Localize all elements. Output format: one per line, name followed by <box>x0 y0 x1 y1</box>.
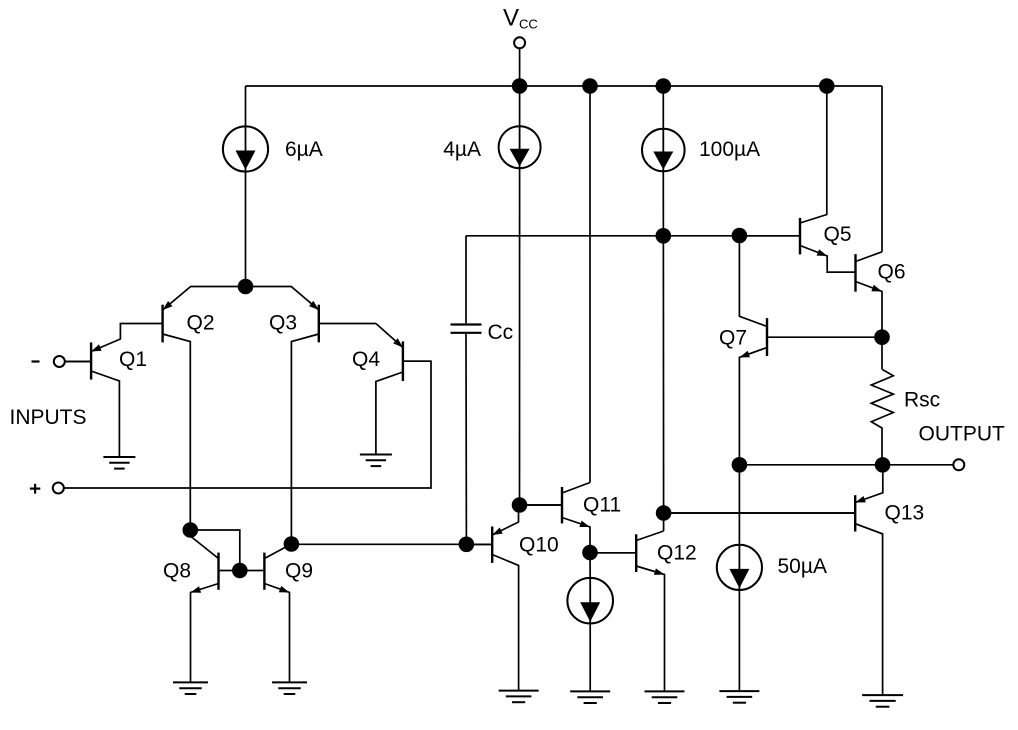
junction rail / Q11 column <box>582 78 598 94</box>
junction Q2-Q8 collector node <box>183 522 199 538</box>
ground (under Q10) <box>499 691 539 703</box>
wire output line <box>739 464 953 466</box>
terminal inverting input <box>54 356 65 367</box>
svg-text:INPUTS: INPUTS <box>10 406 87 429</box>
junction rail / Q5 collector <box>819 78 835 94</box>
wire Cc bottom branch <box>465 334 467 544</box>
wire bias source to ground <box>589 623 591 691</box>
junction Q11 emitter / Q12 base node <box>582 545 598 561</box>
junction Q3-Q9 collector node <box>284 536 300 552</box>
svg-text:Q11: Q11 <box>583 494 621 517</box>
junction Q7 emitter / 50uA / output line node <box>732 457 748 473</box>
transistor Q10 <box>466 505 519 691</box>
current source I1 6uA <box>223 126 268 171</box>
ground (under I4) <box>570 691 610 703</box>
capacitor Cc <box>451 325 482 333</box>
ground (under Q9) <box>272 682 307 694</box>
transistor Q3 <box>246 287 376 545</box>
transistor Q9 <box>240 544 292 682</box>
svg-text:Rsc: Rsc <box>904 389 940 412</box>
junction rail2 / 100uA column junction <box>656 228 672 244</box>
transistor Q12 <box>590 531 665 691</box>
wire Q12 base <box>590 552 636 554</box>
transistor Q2 <box>163 287 246 531</box>
wire 100uA source down to Q12 collector <box>662 171 664 531</box>
svg-text:OUTPUT: OUTPUT <box>919 423 1006 446</box>
svg-text:Q4: Q4 <box>352 348 380 371</box>
current source I2 4uA <box>499 126 541 168</box>
terminal Vcc <box>514 37 525 48</box>
wire 6uA source to diff-pair node <box>245 171 247 286</box>
wire Vcc stem <box>519 49 521 87</box>
svg-text:Q1: Q1 <box>119 348 147 371</box>
ground (under Q13) <box>862 695 903 707</box>
junction rail2 / Q7 collector node <box>732 228 748 244</box>
label - (inverting input) <box>32 360 40 362</box>
wire rail to 100uA source <box>662 86 664 129</box>
transistor Q13 <box>664 465 883 695</box>
label + (non-inverting input) <box>30 484 40 494</box>
junction 4uA / Q10 emitter / Q11 base node <box>512 497 528 513</box>
junction rail / Vcc stem <box>512 78 528 94</box>
wire Q13 base <box>664 512 855 514</box>
resistor Rsc <box>881 337 883 369</box>
junction output node <box>875 457 891 473</box>
ground (under Q4) <box>360 455 392 467</box>
terminal OUTPUT <box>953 459 964 470</box>
junction Q12 collector / Q13 base node <box>656 505 672 521</box>
junction Q8/Q9 common base node <box>232 563 248 579</box>
svg-text:Q2: Q2 <box>187 312 215 335</box>
current source I3 100uA <box>642 129 685 172</box>
svg-text:Q13: Q13 <box>885 502 925 525</box>
wire Q8 collector-base link <box>190 530 240 571</box>
wire Cc top branch <box>465 236 467 323</box>
svg-text:Q5: Q5 <box>824 223 852 246</box>
svg-text:50µA: 50µA <box>778 555 827 578</box>
wire Q11 base <box>520 504 563 506</box>
transistor Q8 <box>190 530 240 682</box>
wire 4uA source down to Q10/Q11 node <box>519 168 521 505</box>
wire rail to Q11 collector <box>589 86 591 483</box>
svg-text:Q8: Q8 <box>163 560 191 583</box>
wire rail to 4uA source <box>519 86 521 127</box>
wire Vcc top rail <box>246 85 883 87</box>
current source I5 50uA <box>717 545 762 590</box>
wire Cc-Q5 base rail <box>466 235 800 237</box>
transistor Q6 <box>827 252 882 337</box>
wire - input to Q1 base <box>65 361 91 363</box>
current source I4 (Q11 bias) <box>567 578 613 624</box>
ground (under I5) <box>719 691 759 703</box>
svg-text:Q10: Q10 <box>519 534 559 557</box>
svg-text:Q12: Q12 <box>657 542 697 565</box>
svg-text:4µA: 4µA <box>443 138 481 161</box>
junction Cc bottom node <box>459 537 475 553</box>
wire 50uA to ground <box>738 590 740 692</box>
transistor Q4 <box>376 324 431 455</box>
svg-text:Q3: Q3 <box>269 312 297 335</box>
svg-text:Cc: Cc <box>488 321 514 344</box>
ground (under Q8) <box>173 682 208 694</box>
transistor Q5 <box>739 86 855 272</box>
transistor Q7 <box>739 236 882 545</box>
wire rail right end down to Q6 collector <box>881 86 883 252</box>
transistor Q1 <box>65 324 163 459</box>
junction rail / 100uA column <box>656 78 672 94</box>
svg-text:6µA: 6µA <box>285 138 323 161</box>
svg-text:Q7: Q7 <box>719 327 747 350</box>
wire rail to 6uA source <box>245 86 247 127</box>
svg-text:100µA: 100µA <box>699 138 760 161</box>
svg-text:Q9: Q9 <box>285 560 313 583</box>
wire Q11 emitter node to bias source <box>589 553 591 579</box>
junction Q6 emitter / Q7 base / Rsc top node <box>874 329 890 345</box>
terminal non-inverting input <box>53 483 64 494</box>
transistor Q11 <box>520 483 591 553</box>
wire Q9 collector to Q10 base <box>291 543 492 545</box>
ground (under Q12) <box>645 691 685 703</box>
junction diff pair tail node <box>238 279 254 295</box>
ground (under Q1) <box>103 457 135 469</box>
wire + input to Q4 base <box>64 361 431 488</box>
svg-text:Q6: Q6 <box>878 261 906 284</box>
